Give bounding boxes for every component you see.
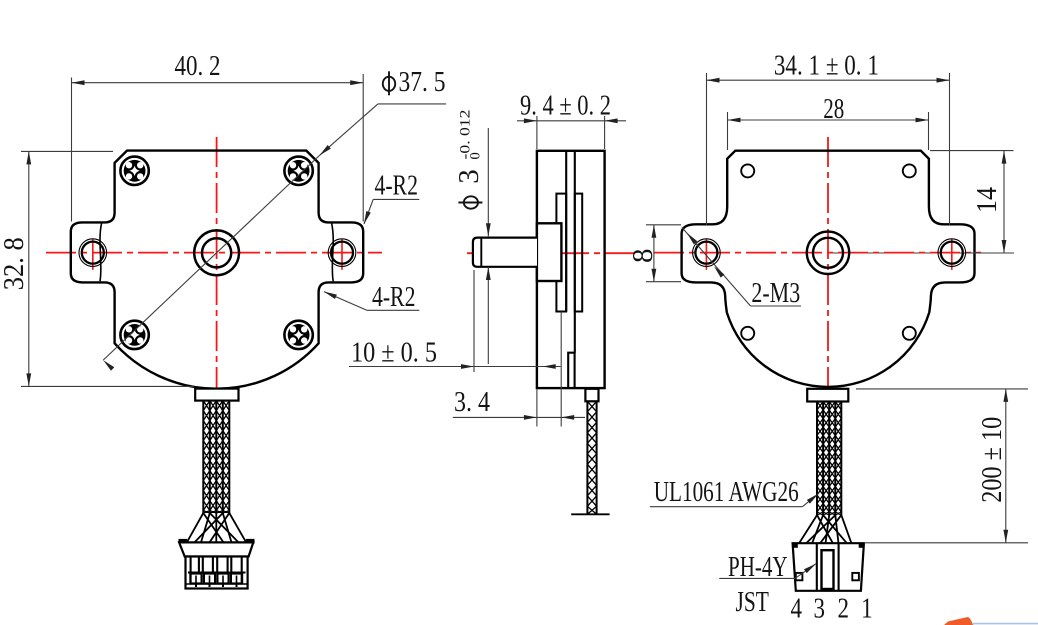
svg-text:JST: JST <box>736 586 770 618</box>
svg-text:32. 8: 32. 8 <box>0 237 30 290</box>
svg-text:2-M3: 2-M3 <box>751 277 800 309</box>
svg-text:10 ± 0. 5: 10 ± 0. 5 <box>351 337 437 369</box>
svg-text:4: 4 <box>790 593 802 625</box>
svg-text:9. 4 ± 0. 2: 9. 4 ± 0. 2 <box>520 90 611 122</box>
svg-text:4-R2: 4-R2 <box>372 281 416 313</box>
svg-text:4-R2: 4-R2 <box>374 169 418 201</box>
svg-text:40. 2: 40. 2 <box>175 50 221 82</box>
svg-text:2: 2 <box>838 593 850 625</box>
svg-text:3: 3 <box>453 169 485 184</box>
svg-text:-0. 012: -0. 012 <box>457 110 473 160</box>
svg-text:200 ± 10: 200 ± 10 <box>976 417 1008 503</box>
svg-text:UL1061 AWG26: UL1061 AWG26 <box>654 476 799 508</box>
svg-text:3: 3 <box>814 593 826 625</box>
svg-text:34. 1 ± 0. 1: 34. 1 ± 0. 1 <box>774 50 879 82</box>
svg-text:1: 1 <box>861 593 873 625</box>
svg-text:14: 14 <box>971 187 1003 213</box>
svg-text:3. 4: 3. 4 <box>454 386 490 418</box>
svg-text:PH-4Y: PH-4Y <box>728 551 788 583</box>
svg-text:28: 28 <box>823 93 844 125</box>
svg-text:37. 5: 37. 5 <box>399 66 446 98</box>
svg-text:8: 8 <box>627 249 659 264</box>
